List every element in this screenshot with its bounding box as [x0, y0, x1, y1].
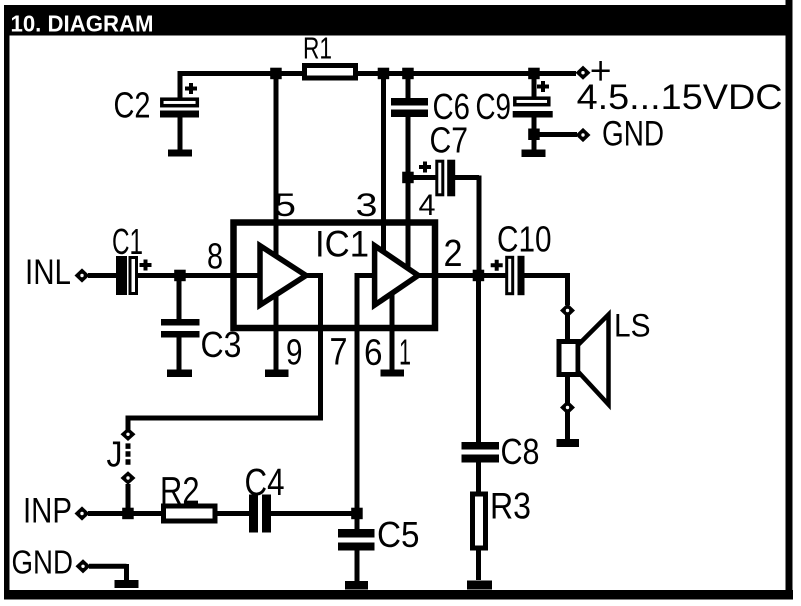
wire C8 to R3 to ground: [476, 462, 481, 580]
svg-text:LS: LS: [614, 308, 651, 344]
terminal INP: [75, 506, 90, 520]
wire C5 stem: [355, 551, 360, 582]
wire GND branch: [534, 132, 577, 137]
ground C3: [167, 370, 192, 378]
svg-text:C7: C7: [430, 120, 469, 161]
wire GND left corner: [89, 564, 127, 580]
junction C1 C3: [174, 270, 186, 282]
capacitor C6: [391, 98, 428, 117]
svg-text:4: 4: [419, 189, 436, 222]
capacitor C9: [513, 81, 553, 118]
wire C8 column top: [476, 273, 481, 443]
wire pin1 column: [390, 288, 395, 370]
svg-text:6: 6: [364, 332, 383, 373]
svg-text:C2: C2: [114, 85, 151, 126]
wire C7 branch left: [408, 175, 436, 180]
capacitor C5: [338, 529, 375, 551]
terminal GND supply: [576, 128, 591, 142]
wire C9 stem top: [532, 71, 537, 97]
title bar: [4, 5, 790, 36]
capacitor C3: [161, 319, 200, 338]
wire INP row left: [88, 511, 250, 516]
wire INL row to amp: [137, 273, 318, 278]
terminal J upper: [121, 428, 136, 441]
capacitor C7: [419, 160, 455, 197]
resistor R2: [164, 506, 216, 521]
resistor R3: [473, 494, 486, 548]
svg-text:8: 8: [207, 236, 223, 277]
capacitor C1: [116, 256, 152, 295]
op-amp B triangle: [375, 246, 419, 305]
svg-text:5: 5: [274, 187, 296, 223]
svg-text:J: J: [107, 434, 123, 475]
junction top rail C9: [528, 68, 540, 80]
capacitor C8: [462, 442, 500, 463]
capacitor C4: [249, 495, 271, 533]
ground pin1: [381, 370, 405, 377]
svg-text:IC1: IC1: [315, 224, 369, 265]
wire C10 output corner: [524, 273, 568, 305]
junction C4 C5: [351, 508, 363, 520]
wire speaker column: [565, 315, 570, 439]
svg-text:C8: C8: [501, 431, 540, 472]
wire C6 pin4 column top: [406, 71, 411, 98]
left border: [4, 5, 10, 599]
wire C9 stem bottom: [532, 117, 537, 150]
speaker cone: [578, 315, 609, 405]
capacitor C10: [491, 256, 525, 295]
svg-text:C3: C3: [201, 324, 242, 365]
wire pin5-pin9 column: [274, 71, 279, 370]
svg-text:C4: C4: [245, 462, 285, 504]
svg-text:3: 3: [356, 187, 378, 223]
junction top rail C6: [402, 68, 414, 80]
wire INL row left: [88, 273, 117, 278]
junction top rail pin5: [270, 68, 282, 80]
junction pin2 C8: [473, 270, 485, 282]
ground C5: [345, 581, 368, 590]
speaker driver box: [559, 342, 578, 375]
resistor R1: [305, 66, 356, 79]
ground C9: [522, 150, 546, 158]
ground C2: [168, 150, 192, 157]
svg-text:C1: C1: [112, 221, 143, 262]
junction top rail pin3: [378, 68, 390, 80]
svg-text:7: 7: [330, 332, 348, 374]
svg-text:GND: GND: [602, 114, 664, 154]
svg-text:C5: C5: [377, 514, 420, 555]
svg-text:R2: R2: [160, 471, 200, 513]
wire C7 branch right corner: [455, 176, 480, 274]
svg-text:9: 9: [286, 332, 303, 373]
op-amp IC1 box: [234, 223, 436, 329]
junction J INP: [122, 508, 134, 520]
right border: [786, 0, 793, 599]
ground pin9: [265, 370, 289, 378]
op-amp A triangle: [260, 246, 306, 305]
capacitor C2: [160, 83, 199, 118]
bottom border: [4, 590, 793, 600]
wire J dashed link: [126, 443, 131, 465]
svg-text:2: 2: [444, 233, 463, 275]
wire top supply rail: [178, 71, 577, 76]
wire INP row right: [271, 511, 358, 516]
terminal LS bottom: [560, 400, 575, 414]
plus sign supply: [592, 61, 610, 81]
wire C2 stem bottom: [178, 117, 183, 150]
svg-text:R3: R3: [490, 486, 531, 527]
terminal plus supply: [576, 66, 591, 80]
terminal INL: [75, 268, 90, 282]
svg-text:C9: C9: [476, 86, 512, 127]
wire pin2 output row: [416, 273, 506, 278]
junction C7 branch: [402, 172, 414, 184]
wire C6 pin4 column bottom: [406, 117, 411, 270]
wire C2 stem top: [178, 74, 183, 98]
svg-text:R1: R1: [303, 31, 332, 66]
svg-text:GND: GND: [12, 544, 74, 581]
wire pin7 feedback: [128, 273, 321, 431]
junction C9 GND: [528, 129, 540, 141]
svg-text:4.5...15VDC: 4.5...15VDC: [577, 77, 783, 117]
terminal GND input: [76, 559, 91, 573]
wire C3 stem: [177, 276, 182, 370]
wire pin3 column: [381, 71, 386, 265]
ground GND input: [115, 580, 139, 588]
ground LS: [557, 439, 580, 447]
svg-text:C10: C10: [497, 219, 552, 260]
terminal J lower: [121, 471, 136, 484]
svg-text:1: 1: [399, 332, 411, 373]
wire pin6 column: [357, 276, 375, 531]
svg-text:INP: INP: [23, 492, 72, 531]
terminal LS top: [560, 303, 575, 317]
svg-text:INL: INL: [25, 253, 71, 292]
ground R3: [467, 581, 492, 590]
svg-text:10. DIAGRAM: 10. DIAGRAM: [11, 11, 154, 37]
wire J lower stub: [126, 484, 131, 516]
